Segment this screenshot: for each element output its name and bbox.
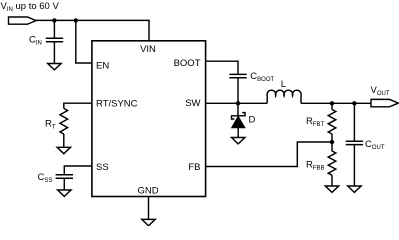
ground (diode) [232,138,245,144]
wire VIN rail to VIN pin [36,20,149,40]
capacitor CSS [56,175,73,190]
node junction at EN branch [74,18,78,22]
capacitor CBOOT [229,74,246,103]
wire RT/SYNC stub [64,103,93,108]
pin label GND [137,185,158,196]
svg-text:SS: SS [96,162,109,173]
svg-text:GND: GND [137,185,158,196]
resistor RFBB [328,142,336,186]
node junction SW/CBOOT/D [236,101,240,105]
pin label SS [96,162,109,173]
label RFBB [306,160,325,172]
svg-text:EN: EN [96,60,109,71]
svg-text:RT/SYNC: RT/SYNC [96,99,138,110]
wire SS stub [64,166,92,175]
svg-text:BOOT: BOOT [174,58,201,69]
pin label EN [96,60,109,71]
ground (RT) [57,147,70,153]
svg-text:FB: FB [188,162,200,173]
wire output rail [301,102,371,104]
node junction RFBT top [330,101,334,105]
label RFBT [306,116,325,128]
svg-text:SW: SW [185,98,200,109]
label VOUT [371,85,390,97]
ground (CSS) [58,190,71,196]
pin label BOOT [174,58,201,69]
pin label VIN [140,44,156,55]
wire EN branch [76,20,93,63]
wire FB stub [206,142,333,167]
wire CIN branch [53,20,55,38]
label L [281,79,286,90]
svg-text:VIN: VIN [140,44,156,55]
output terminal VOUT [371,99,398,106]
wire GND stub [148,197,150,220]
capacitor CIN [46,38,63,63]
ground (CIN) [48,64,61,70]
node junction at CIN [52,18,56,22]
op-amp U1 regulator IC body [92,41,206,197]
pin label RT/SYNC [96,99,138,110]
wire BOOT stub [206,61,239,74]
node junction FB divider [330,140,334,144]
ground (RFBB) [325,186,338,192]
label RT [45,119,56,131]
pin label FB [188,162,200,173]
node junction COUT [352,101,356,105]
label CSS [38,172,53,184]
label CBOOT [250,71,274,83]
label COUT [365,139,385,151]
svg-text:L: L [281,79,286,90]
resistor RFBT [328,103,336,142]
capacitor COUT [346,103,363,186]
ground (COUT) [348,186,361,192]
diode D schottky [232,113,246,138]
pin label SW [185,98,200,109]
ground (GND pin) [142,219,155,225]
label D [249,115,256,126]
label CIN [29,34,42,46]
input terminal VIN [9,17,37,24]
resistor RT [60,108,68,147]
svg-text:D: D [249,115,256,126]
wire diode branch [237,103,239,116]
inductor L [267,90,301,103]
wire SW stub [206,102,268,104]
label VIN up to 60 V [1,1,60,13]
